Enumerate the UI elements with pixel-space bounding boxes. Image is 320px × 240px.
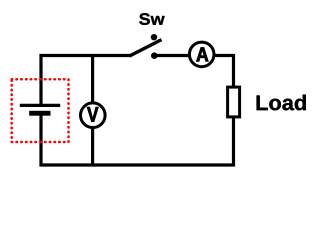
switch Sw top contact dot [151, 34, 157, 40]
wire battery bottom, bottom wire, right vertical to load [41, 113, 234, 165]
label Load [257, 95, 306, 111]
load resistor R1 [228, 87, 240, 117]
wire ammeter to top-right corner and down [214, 56, 234, 88]
switch Sw blade [130, 40, 162, 56]
switch Sw bottom contact dot [151, 52, 158, 59]
battery B1 [20, 105, 60, 115]
wire switch to ammeter [154, 54, 190, 57]
ammeter U2 [189, 42, 214, 67]
wire voltmeter branch top [91, 54, 94, 103]
voltmeter U1 [81, 103, 106, 128]
wire voltmeter branch bottom [91, 128, 94, 166]
wire left vertical + top wire to switch [41, 56, 131, 106]
label Sw [139, 13, 164, 25]
red dashed battery box [12, 79, 69, 142]
